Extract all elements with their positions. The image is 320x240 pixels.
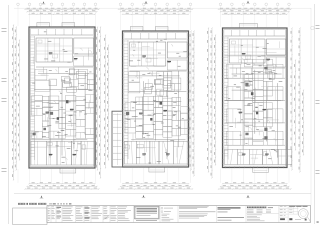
title glyph under plan3 [247,195,249,198]
north arrow glyph plan 1 [43,1,45,4]
scale annotation after title [50,203,51,204]
fine texture lines [172,111,174,118]
general notes text columns [48,206,50,209]
window mullion ticks along exterior walls [125,30,127,32]
elevator shafts [251,92,254,95]
bottom-right small mark [317,221,319,223]
bottom dark marks in sheet cell [289,218,292,220]
closet ladder strip along left wall [127,40,129,159]
bottom unit rooms [31,141,46,165]
vertical dividers in title block [50,206,52,223]
framed issue box [135,206,160,219]
text under framed box [136,219,157,222]
upper big rooms [130,42,166,66]
north arrow glyph plan 3 [247,1,249,4]
floor plan building outline variant 1 [112,27,189,173]
title glyph under plan1 [41,195,43,198]
long horizontal reference line top [14,7,311,9]
chains right of plan3 [291,28,293,170]
dense middle band of small rooms [225,55,286,57]
closet ladder strip along left wall [227,37,229,160]
sheet title cell header microtext [289,206,295,207]
unit number labels [49,52,53,53]
terrace band [225,35,286,37]
long vertical reference line right [310,8,312,205]
bottom unit rooms [225,149,238,164]
chains between plan1 and plan2 [97,27,99,170]
signature diagonal [104,217,109,220]
window mullion ticks along exterior walls [225,27,227,29]
grid bubbles and top dimension chains [118,3,193,30]
grid bubbles and top dimension chains [17,3,100,26]
floor plan building outline variant 0 [28,23,96,174]
upper-middle room cluster [154,80,161,84]
elevator shafts [160,102,163,105]
fields cell (date/scale/drawn by) [279,207,287,209]
dense middle band of small rooms [125,103,136,111]
fine texture lines [268,119,279,121]
north arrow glyph plan 2 [145,1,147,4]
sheet number dark block [280,218,285,220]
bottom dimension chains [118,168,193,190]
terrace band [125,38,187,40]
door swing arcs [149,72,151,74]
upper big rooms [230,39,266,63]
room label text [274,149,276,152]
chains between plan2 and plan3 [190,31,192,170]
fine texture lines [68,142,75,144]
terrace band [31,34,93,36]
left vertical dimension chains plan1 [13,25,15,180]
notes paragraph x178-216 [179,205,209,208]
project info cell [218,207,241,208]
window mullion ticks along exterior walls [31,26,33,28]
long horizontal reference line bottom [14,193,311,195]
grid bubbles and top dimension chains [218,3,292,27]
stamp circle [298,209,308,219]
unit number labels [142,55,146,56]
architect cell: Chen &amp; Glasner [247,207,267,209]
sheet inner frame right [314,4,316,224]
bottom dimension chains [18,169,100,190]
key plan empty box [13,208,47,225]
room label text [55,134,58,137]
title block strip [47,206,311,223]
elevator shafts [66,100,69,103]
legend notes x160-178 [161,207,163,209]
drawing title: LEVEL 4 FLOOR PLAN (word bars) [18,203,25,205]
title glyph under plan2 [143,195,145,198]
dense middle band of small rooms [32,96,43,102]
unit number labels [242,53,246,54]
sheet inner frame left [8,5,10,224]
door swing arcs [254,110,256,112]
upper big rooms [36,38,72,62]
right margin tick text [316,24,320,27]
upper-middle room cluster [61,76,69,81]
top-right registration circle [311,26,315,30]
closet ladder strip along left wall [34,36,36,160]
upper-middle room cluster [245,81,250,86]
sheet title cell rows [289,208,299,210]
left margin tick text [2,27,7,30]
bottom unit rooms [125,141,137,164]
floor plan building outline variant 2 [222,24,292,173]
room label text [133,101,137,104]
door swing arcs [83,132,85,134]
bottom dimension chains [218,169,292,190]
